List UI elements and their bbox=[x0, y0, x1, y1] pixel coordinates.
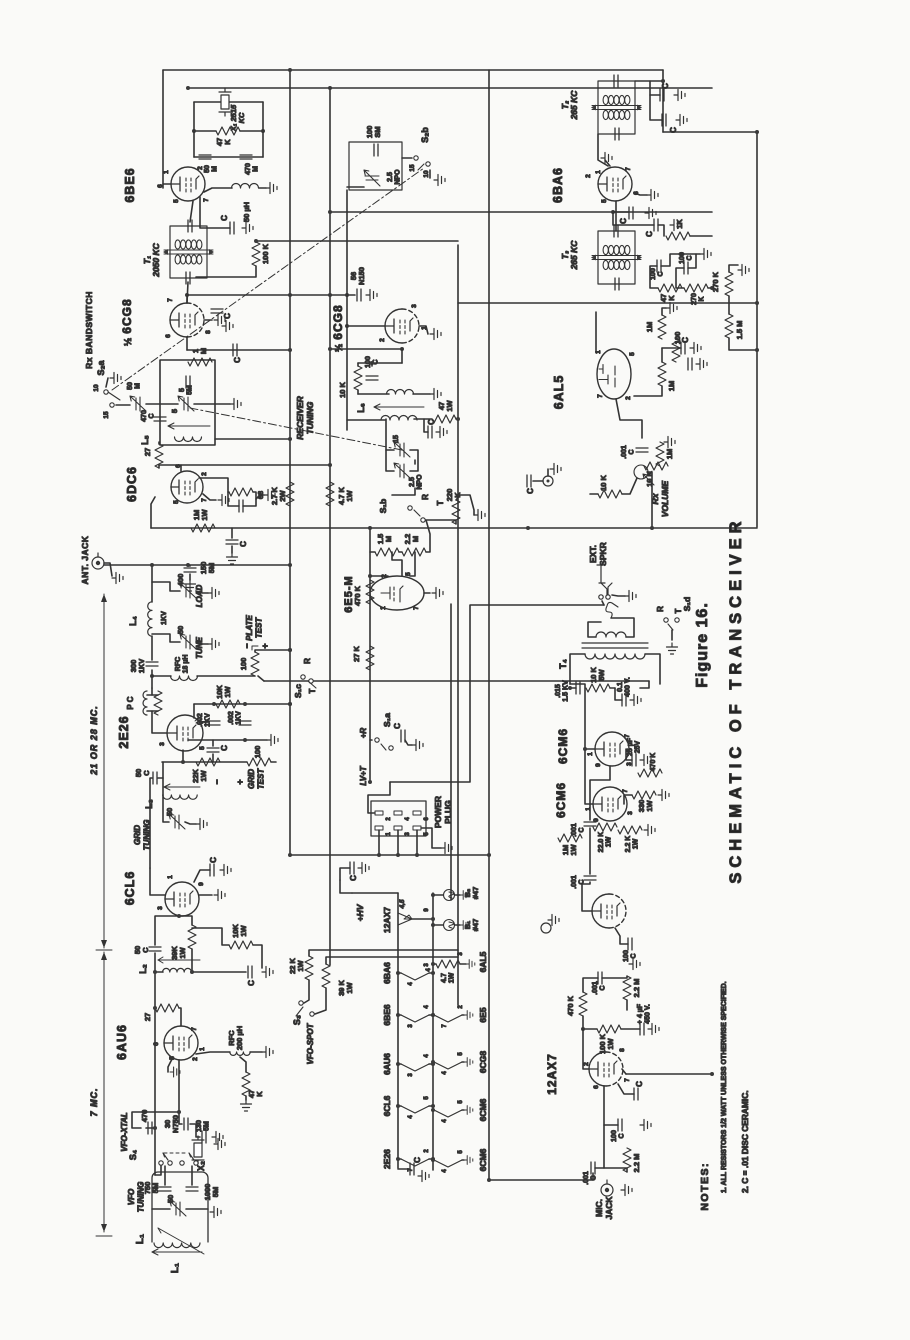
wire plug feed5 bbox=[416, 830, 418, 855]
svg-text:MIC.: MIC. bbox=[594, 1199, 604, 1217]
svg-text:9: 9 bbox=[595, 763, 602, 767]
ground c cga bbox=[222, 321, 233, 332]
wire 6E5 hbb3 bbox=[462, 1014, 464, 1016]
crystal X2 bbox=[192, 1136, 204, 1164]
svg-text:1.5 KV: 1.5 KV bbox=[563, 680, 570, 702]
svg-text:½: ½ bbox=[123, 338, 134, 346]
svg-text:Figure 16.: Figure 16. bbox=[694, 602, 711, 688]
wire 220k a bbox=[427, 520, 456, 524]
svg-text:2050 KC: 2050 KC bbox=[151, 242, 161, 277]
resistor 330 1W bbox=[632, 791, 656, 799]
svg-text:50: 50 bbox=[176, 626, 185, 634]
resistor 47K osc bbox=[216, 127, 240, 135]
svg-text:2: 2 bbox=[201, 472, 208, 476]
svg-text:M: M bbox=[135, 383, 142, 389]
wire 470 link bbox=[146, 1127, 155, 1129]
wire 39K b bbox=[179, 916, 192, 925]
capacitor 0.1 400V bbox=[622, 694, 626, 706]
wire s1c blade bbox=[308, 681, 316, 688]
wire pin5 to avc bbox=[151, 497, 155, 528]
variable capacitor VFO tuning 50 bbox=[170, 1201, 186, 1216]
svg-text:25 µF: 25 µF bbox=[627, 737, 634, 756]
wire 22m down bbox=[426, 520, 430, 552]
ground det3 bbox=[696, 359, 707, 370]
resistor 2.7K 2W bbox=[286, 482, 294, 506]
svg-text:L₆: L₆ bbox=[356, 403, 366, 413]
svg-text:4: 4 bbox=[426, 968, 432, 972]
wire L5 arrow2 bbox=[168, 423, 174, 426]
wire load gnd bbox=[196, 591, 208, 593]
svg-text:10 K: 10 K bbox=[599, 474, 608, 490]
svg-text:.001: .001 bbox=[621, 445, 628, 459]
svg-text:M: M bbox=[253, 166, 260, 172]
svg-text:6: 6 bbox=[153, 1042, 160, 1046]
svg-text:6: 6 bbox=[424, 817, 430, 821]
resistor 470K aud bbox=[579, 992, 587, 1016]
ground ba k bbox=[647, 190, 658, 201]
wire t1 to cga grid bbox=[187, 282, 188, 303]
wire avc line px458 bbox=[457, 245, 459, 1005]
ground 330 bbox=[658, 790, 669, 801]
svg-text:6CM6: 6CM6 bbox=[554, 782, 568, 818]
capacitor C ba2 bbox=[654, 219, 658, 231]
lamp B2 bbox=[444, 890, 455, 901]
transformer T3 bbox=[591, 231, 642, 284]
parasitic choke PC bbox=[143, 691, 147, 715]
ground osc bbox=[266, 183, 277, 194]
capacitor C det bbox=[681, 342, 685, 354]
wire key jack2 bbox=[547, 469, 549, 476]
wire det d bbox=[662, 347, 681, 349]
svg-text:L₁: L₁ bbox=[170, 1263, 181, 1273]
ground C l2 bbox=[262, 967, 273, 978]
svg-text:450 V.: 450 V. bbox=[645, 1004, 652, 1024]
svg-text:12AX7: 12AX7 bbox=[382, 907, 392, 933]
wire plate line py349 bbox=[330, 348, 402, 350]
wire tank link bbox=[371, 363, 373, 366]
ground pot b bbox=[664, 437, 675, 448]
wire 6CL6 ha bbox=[398, 1105, 401, 1107]
svg-text:5: 5 bbox=[458, 1100, 464, 1104]
svg-text:2: 2 bbox=[379, 338, 386, 342]
tube 6DC6 V4 bbox=[171, 471, 203, 503]
wire 22k s3 b bbox=[304, 980, 309, 1003]
tube 6AU6 V1 bbox=[164, 1026, 198, 1060]
svg-text:1. ALL RESISTORS 1/2 WATT UNLE: 1. ALL RESISTORS 1/2 WATT UNLESS OTHERWI… bbox=[721, 981, 728, 1193]
wire 1.5m left bbox=[392, 552, 402, 576]
lamp B1 bbox=[444, 920, 455, 931]
svg-text:7: 7 bbox=[624, 1078, 631, 1082]
svg-text:5: 5 bbox=[629, 352, 636, 356]
capacitor C cga out bbox=[233, 344, 237, 356]
ground heater b1 bbox=[464, 1106, 473, 1115]
svg-text:2E26: 2E26 bbox=[117, 715, 131, 748]
svg-text:C: C bbox=[658, 271, 665, 276]
wire c heater bbox=[398, 1168, 410, 1170]
resistor 27 vfo bbox=[155, 1004, 179, 1012]
wire L2 arrowhead bbox=[158, 960, 163, 963]
svg-text:6BA6: 6BA6 bbox=[551, 167, 565, 203]
wire rfc down to pt bbox=[197, 675, 255, 677]
wire lv riser bbox=[369, 528, 371, 782]
wire 6BE6 pin5 feed bbox=[162, 70, 164, 188]
ground ct2b bbox=[676, 115, 687, 126]
wire L6 arrowb bbox=[374, 404, 380, 407]
wire lamp b2 bbox=[433, 894, 443, 896]
wire ba cap bbox=[613, 211, 629, 213]
svg-text:C: C bbox=[661, 83, 670, 89]
resistor 100K 1W bbox=[597, 1025, 621, 1033]
svg-text:6E5: 6E5 bbox=[478, 1007, 488, 1022]
wire 50c c bbox=[155, 916, 179, 945]
resistor 10K 1W 2e26 bbox=[216, 700, 240, 708]
wire 6al5 ha bbox=[433, 963, 436, 965]
wire agc down bbox=[729, 338, 757, 350]
svg-text:S₁a: S₁a bbox=[382, 713, 392, 727]
wire 39k s3 bbox=[326, 957, 458, 964]
wire osc grid line py88 bbox=[188, 87, 712, 89]
wire l6a bbox=[413, 393, 430, 395]
wire pc frame2 bbox=[147, 694, 158, 696]
ground ct2a bbox=[674, 90, 685, 101]
svg-text:270 K: 270 K bbox=[711, 271, 720, 292]
wire 6AU6 hb bbox=[429, 1063, 433, 1065]
svg-text:VFO-SPOT: VFO-SPOT bbox=[306, 1022, 315, 1064]
wire 1k bbox=[658, 225, 664, 236]
wire 47k stub bbox=[240, 1057, 246, 1072]
resistor 4.7 1W htr bbox=[436, 960, 460, 968]
transformer T4 bbox=[582, 643, 648, 648]
wire plate node bbox=[151, 670, 153, 688]
power plug pin bbox=[413, 826, 421, 830]
wire rx tank a bbox=[414, 419, 428, 432]
svg-text:1W: 1W bbox=[645, 799, 654, 811]
wire heater rail2 bbox=[432, 893, 434, 1170]
svg-text:C: C bbox=[223, 313, 232, 319]
svg-text:C: C bbox=[141, 947, 150, 953]
wire axk bbox=[618, 1084, 634, 1094]
svg-text:C: C bbox=[209, 857, 218, 863]
svg-text:Rx BANDSWITCH: Rx BANDSWITCH bbox=[84, 291, 94, 369]
ground ba2 bbox=[670, 220, 681, 231]
wire c plug bbox=[340, 868, 350, 880]
heater 6CM6 b1 bbox=[434, 1110, 462, 1117]
svg-text:470: 470 bbox=[141, 410, 148, 422]
wire 2.2m left bbox=[410, 552, 415, 576]
wire box seg py132 bbox=[663, 131, 757, 133]
capacitor 56 N150 bbox=[357, 289, 361, 301]
dim arrow right bbox=[101, 594, 107, 602]
capacitor C 47 rx bbox=[428, 426, 432, 438]
wire 27 bottom bbox=[158, 465, 160, 468]
svg-text:15: 15 bbox=[103, 411, 110, 419]
svg-text:5: 5 bbox=[458, 1150, 464, 1154]
svg-text:2: 2 bbox=[585, 174, 592, 178]
tube 6BE6 V6 bbox=[171, 167, 205, 201]
svg-text:.015: .015 bbox=[555, 684, 562, 698]
svg-text:ANT. JACK: ANT. JACK bbox=[80, 535, 90, 584]
ground 100c bbox=[700, 249, 711, 260]
svg-text:1: 1 bbox=[163, 170, 170, 174]
resistor 470K 6e5 bbox=[366, 580, 374, 604]
svg-text:3: 3 bbox=[408, 1073, 414, 1077]
tube 6AL5 V9 bbox=[597, 349, 631, 399]
capacitor 50 C vfo bbox=[149, 947, 161, 951]
svg-text:400 V.: 400 V. bbox=[625, 677, 632, 697]
wire be to t1 bbox=[190, 201, 193, 222]
svg-text:C: C bbox=[681, 337, 690, 343]
resistor 22K 1W s3 bbox=[305, 956, 313, 980]
capacitor .001 aud bbox=[584, 822, 596, 826]
wire grid drop bbox=[179, 1123, 182, 1125]
svg-text:6AL5: 6AL5 bbox=[552, 375, 566, 410]
svg-text:½: ½ bbox=[334, 344, 345, 352]
capacitor 100 C pi bbox=[628, 938, 632, 950]
svg-text:0.1: 0.1 bbox=[617, 682, 624, 692]
svg-text:C: C bbox=[631, 953, 638, 958]
wire vfo rail bbox=[154, 953, 156, 1175]
svg-text:50: 50 bbox=[127, 382, 134, 390]
wire 12ax7 htr bbox=[412, 918, 433, 920]
wire spkr cord bbox=[602, 601, 604, 605]
capacitor .002 1KV a bbox=[208, 721, 220, 725]
inductor L5 arrow bbox=[168, 426, 210, 429]
wire 10k vol bbox=[622, 478, 637, 494]
ground det bbox=[690, 343, 701, 354]
svg-text:6: 6 bbox=[165, 334, 172, 338]
resistor 1M det a bbox=[658, 315, 666, 339]
wire grid mid bbox=[190, 1124, 200, 1137]
svg-text:1W: 1W bbox=[296, 959, 305, 971]
wire be grid line bbox=[194, 156, 263, 158]
svg-text:270: 270 bbox=[691, 293, 698, 305]
wire if clu c bbox=[661, 254, 700, 266]
wire grid stub 2e26 bbox=[182, 750, 184, 762]
svg-text:1W: 1W bbox=[633, 838, 640, 849]
wire plate drop bbox=[401, 349, 403, 363]
ground 150 bbox=[185, 580, 196, 591]
svg-text:L₃: L₃ bbox=[144, 799, 154, 809]
svg-text:T₄: T₄ bbox=[558, 659, 568, 669]
svg-text:T: T bbox=[674, 608, 683, 613]
svg-text:470: 470 bbox=[245, 163, 252, 175]
svg-text:2.2 M: 2.2 M bbox=[632, 979, 641, 998]
wire 6CM6 hba0 bbox=[433, 1159, 434, 1161]
svg-text:9: 9 bbox=[593, 818, 600, 822]
svg-text:1W: 1W bbox=[449, 972, 456, 983]
capacitor T3 top bbox=[614, 225, 618, 237]
wire 10K b2 bbox=[253, 945, 262, 968]
wire rfc out bbox=[250, 1051, 262, 1053]
svg-text:50: 50 bbox=[165, 808, 174, 816]
switch S4 blade head bbox=[163, 1153, 165, 1157]
resistor 47K vfo bbox=[242, 1072, 250, 1096]
svg-text:6DC6: 6DC6 bbox=[125, 466, 139, 502]
choke RFC 200UH bbox=[230, 1052, 250, 1055]
capacitor C t2a bbox=[660, 89, 664, 101]
svg-text:+R: +R bbox=[359, 728, 368, 739]
heater 12AX7 bbox=[398, 913, 412, 925]
capacitor 1000 5M bbox=[186, 1187, 198, 1191]
capacitor 4UF 450V bbox=[640, 1023, 644, 1035]
svg-text:2W: 2W bbox=[278, 489, 287, 501]
wire rx tank c bbox=[456, 418, 458, 420]
capacitor 100 C rx bbox=[366, 376, 378, 380]
svg-text:6BA6: 6BA6 bbox=[382, 962, 392, 984]
dimension line 7MC bbox=[103, 952, 105, 1232]
capacitor C plug bbox=[350, 862, 354, 874]
svg-text:15: 15 bbox=[409, 164, 416, 172]
ground tp bbox=[548, 915, 559, 926]
svg-text:1W: 1W bbox=[345, 981, 354, 993]
wire 6au6 k bbox=[168, 1059, 172, 1072]
wire chain j bbox=[626, 1000, 628, 1010]
wire pt out bbox=[255, 650, 290, 652]
svg-text:6CG8: 6CG8 bbox=[478, 1051, 488, 1073]
heater 6BE6 bbox=[401, 1015, 429, 1022]
svg-text:3: 3 bbox=[159, 742, 166, 746]
svg-text:1KV: 1KV bbox=[161, 611, 168, 625]
svg-text:.002: .002 bbox=[228, 711, 235, 725]
resistor 47 1W rx bbox=[432, 415, 456, 423]
svg-text:1: 1 bbox=[587, 752, 594, 756]
wire mic 22m bbox=[604, 1168, 627, 1172]
dim tick left bbox=[96, 1235, 112, 1237]
svg-text:8: 8 bbox=[205, 330, 212, 334]
wire tank top bbox=[358, 362, 402, 364]
power plug pin bbox=[375, 826, 383, 830]
ground s2a gnd bbox=[230, 399, 241, 410]
resistor 470K fb bbox=[638, 769, 662, 777]
svg-text:1W: 1W bbox=[606, 836, 613, 847]
svg-text:2E26: 2E26 bbox=[382, 1149, 392, 1169]
svg-text:1K: 1K bbox=[675, 219, 684, 229]
wire t2 to box bbox=[635, 80, 663, 82]
variable capacitor 5 bbox=[178, 396, 194, 411]
tube 6CG8A V5 bbox=[170, 303, 204, 337]
connector EXT SPKR bbox=[597, 565, 612, 599]
wire tank bot bbox=[358, 393, 389, 395]
wire pi plate2 bbox=[582, 882, 592, 911]
wire 2e26 grid line bbox=[162, 761, 247, 763]
wire t2 caps bbox=[650, 81, 660, 95]
svg-text:27: 27 bbox=[143, 448, 152, 456]
wire key jack bbox=[533, 480, 543, 482]
svg-text:S₁c: S₁c bbox=[293, 684, 303, 698]
svg-text:SCHEMATIC OF TRANSCEIVER: SCHEMATIC OF TRANSCEIVER bbox=[727, 516, 745, 883]
connector key jack bbox=[543, 476, 553, 486]
switch S4 blade bbox=[163, 1153, 168, 1160]
ground tune bbox=[208, 639, 219, 650]
capacitor 150 5M bbox=[184, 568, 196, 572]
svg-text:18 µH: 18 µH bbox=[183, 655, 190, 674]
ground 6CL6 k bbox=[214, 890, 225, 901]
svg-text:5: 5 bbox=[173, 199, 180, 203]
ground L1 trim bbox=[210, 1207, 221, 1218]
svg-text:1W: 1W bbox=[445, 399, 454, 411]
wire B+ audio rail px489 bbox=[488, 70, 490, 1180]
variable capacitor 15 rx bbox=[394, 442, 410, 457]
svg-text:5M: 5M bbox=[211, 1187, 220, 1197]
svg-text:3: 3 bbox=[411, 304, 418, 308]
wire t4 sec bbox=[588, 622, 601, 637]
resistor 1K bbox=[666, 232, 690, 240]
potentiometer Rx volume bbox=[634, 465, 654, 485]
wire 68 frame2 bbox=[243, 492, 256, 506]
svg-text:#47: #47 bbox=[471, 887, 480, 900]
tube 2E26 V3 bbox=[167, 715, 203, 751]
wire s2a gnd bbox=[106, 378, 108, 387]
wire rfc in bbox=[196, 1052, 230, 1054]
svg-text:L₁: L₁ bbox=[135, 1234, 146, 1244]
dim arrow mid b bbox=[101, 940, 107, 948]
svg-text:5: 5 bbox=[424, 1096, 430, 1100]
wire ba grid in bbox=[598, 134, 608, 166]
wire s1a-s1d link b bbox=[390, 605, 604, 782]
wire t3 to 6al5 bbox=[596, 312, 600, 352]
wire gt end bbox=[271, 761, 276, 763]
svg-text:T: T bbox=[436, 500, 445, 505]
capacitor .002 1KV b bbox=[239, 721, 251, 725]
wire cga plate bbox=[186, 337, 188, 350]
ground 6al5 htr bbox=[466, 960, 475, 969]
connector ANT JACK bbox=[92, 553, 104, 569]
connector MIC JACK bbox=[601, 1180, 613, 1196]
svg-text:2: 2 bbox=[625, 396, 632, 400]
wire 10K a bbox=[192, 928, 229, 945]
svg-text:C: C bbox=[526, 488, 535, 494]
svg-text:C: C bbox=[220, 215, 229, 221]
resistor 27 rx bbox=[155, 444, 163, 468]
svg-text:470 K: 470 K bbox=[566, 995, 575, 1016]
svg-text:6CM6: 6CM6 bbox=[556, 728, 570, 764]
svg-text:M: M bbox=[212, 166, 219, 172]
svg-text:470 K: 470 K bbox=[650, 753, 657, 772]
wire 2e26 sg rail bbox=[188, 739, 267, 741]
svg-text:200 µH: 200 µH bbox=[235, 1026, 244, 1050]
svg-text:5: 5 bbox=[170, 409, 179, 413]
capacitor 100 C ifb bbox=[684, 262, 688, 274]
ground 130 bbox=[212, 1132, 223, 1143]
crystal X1 bbox=[219, 88, 231, 116]
switch S2B blade bbox=[418, 164, 424, 170]
svg-text:6AU6: 6AU6 bbox=[115, 1024, 129, 1060]
wire s1a-s1d link a bbox=[450, 604, 452, 900]
svg-text:5: 5 bbox=[173, 500, 180, 504]
resistor 1M 1W aud bbox=[558, 834, 582, 842]
heater 6CM6 b0 bbox=[434, 1160, 462, 1167]
wire mic grid bbox=[603, 1086, 605, 1125]
svg-text:4: 4 bbox=[442, 1169, 448, 1173]
wire 6CM6 hba1 bbox=[433, 1109, 434, 1111]
wire if clu b bbox=[676, 268, 684, 288]
wire plug feed3 bbox=[397, 830, 399, 855]
capacitor C key bbox=[527, 475, 531, 487]
svg-text:1KV: 1KV bbox=[236, 711, 243, 725]
wire 6CG8 hbb2 bbox=[462, 1061, 464, 1063]
resistor 10K 5W bbox=[586, 684, 610, 692]
wire py681 top bbox=[258, 676, 264, 681]
inductor L2 arrow bbox=[158, 959, 200, 961]
wire if clu d bbox=[688, 254, 696, 268]
ground 6AU6 k bbox=[170, 1067, 180, 1077]
svg-text:1: 1 bbox=[595, 170, 602, 174]
svg-text:6CL6: 6CL6 bbox=[123, 871, 137, 906]
tube 6CL6 V2 bbox=[165, 882, 199, 916]
wire tank to v1 bbox=[215, 438, 290, 440]
capacitor C 6dc6 pl bbox=[226, 540, 238, 544]
ground b2 bbox=[460, 891, 469, 900]
